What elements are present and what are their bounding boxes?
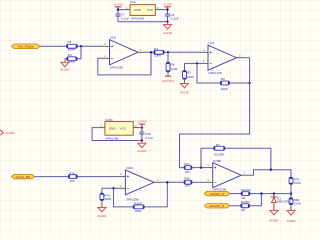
- pin 1 stub U1A output: [237, 57, 245, 59]
- port ADCKP_N: [204, 204, 230, 208]
- svg-text:sin(X)_BA: sin(X)_BA: [16, 175, 31, 179]
- op-amp U29A: [125, 170, 154, 195]
- svg-text:U1B: U1B: [110, 36, 116, 40]
- svg-text:U1C: U1C: [130, 0, 137, 4]
- svg-text:AGND: AGND: [180, 91, 190, 95]
- svg-text:AGND: AGND: [137, 149, 147, 153]
- ground AGND (D1): [269, 210, 279, 222]
- svg-text:0.1uF: 0.1uF: [145, 136, 153, 140]
- wire R2 to U1A pin3: [164, 51, 200, 53]
- resistor R42: [184, 177, 192, 188]
- pin 2 stub U1B: [102, 57, 110, 59]
- svg-text:KEY3V3: KEY3V3: [162, 79, 174, 83]
- resistor R5: [183, 71, 196, 80]
- pin 4 stub (U1C GND): [125, 9, 131, 11]
- svg-text:100K: 100K: [171, 67, 179, 71]
- capacitor C56: [139, 128, 153, 141]
- wire R3 to ground: [65, 58, 67, 60]
- resistor R2: [154, 47, 165, 58]
- op-amp U1A: [208, 45, 237, 70]
- resistor R6: [220, 77, 229, 91]
- svg-text:100K: 100K: [154, 54, 162, 58]
- wire U1A output down and across to R41: [180, 58, 250, 168]
- svg-text:R1: R1: [68, 40, 72, 44]
- svg-text:100K: 100K: [134, 209, 142, 213]
- pin 8 stub (U29C VCC): [133, 127, 139, 129]
- resistor R74: [68, 171, 77, 183]
- svg-text:100K: 100K: [294, 201, 302, 205]
- ground AGND (U29C): [137, 141, 147, 153]
- wire U1C VCC pin to node: [161, 9, 168, 11]
- resistor R4: [166, 62, 179, 72]
- capacitor C8: [165, 10, 179, 22]
- pin 6 stub U29B: [205, 181, 213, 183]
- op-amp power part U1C body: [130, 5, 155, 16]
- svg-text:+2.5VA: +2.5VA: [113, 2, 124, 6]
- svg-text:Key_Phase: Key_Phase: [18, 45, 34, 49]
- ground AGND (R3): [60, 59, 70, 72]
- svg-text:U29B: U29B: [213, 159, 221, 163]
- junction feedback tap: [196, 62, 198, 64]
- wire U29A pin2 to R76: [102, 188, 118, 193]
- resistor R2001: [241, 200, 251, 212]
- ground AGND (top section): [163, 22, 173, 35]
- resistor R76: [100, 193, 112, 201]
- op-amp U1B: [110, 40, 139, 65]
- port ADCKP_P: [204, 191, 230, 195]
- junction U1B output: [150, 51, 152, 53]
- wire R41 to U29B pin5: [192, 167, 205, 169]
- svg-text:0.1uF: 0.1uF: [171, 16, 179, 20]
- svg-text:100K: 100K: [68, 47, 76, 51]
- ground AGND (R76): [97, 207, 107, 218]
- svg-text:AGND: AGND: [269, 218, 279, 222]
- wire C7 bottom to C8 bottom: [118, 21, 168, 23]
- junction U29A output: [166, 181, 168, 183]
- pin 2 stub U1A: [201, 62, 209, 64]
- wire R4 to power bar: [167, 72, 169, 76]
- svg-text:100K: 100K: [104, 197, 112, 201]
- svg-text:R2000: R2000: [241, 188, 250, 192]
- svg-text:100K: 100K: [221, 87, 229, 91]
- svg-text:AGND: AGND: [287, 219, 297, 223]
- wire port to R1 and U1B: [40, 45, 102, 47]
- junction D1 tap: [273, 192, 275, 194]
- wire R76 to ground: [101, 201, 103, 208]
- resistor R79: [289, 177, 302, 185]
- junction feedback tap (U29A): [112, 187, 114, 189]
- resistor R100: [133, 202, 144, 214]
- svg-text:GND: GND: [109, 127, 117, 131]
- svg-text:R2: R2: [154, 47, 158, 51]
- svg-text:OPA2198: OPA2198: [110, 65, 123, 69]
- junction R7/output: [270, 169, 272, 171]
- pin 8 stub (U1C VCC): [155, 9, 161, 11]
- resistor R2000: [241, 188, 251, 200]
- svg-text:100K: 100K: [187, 75, 195, 79]
- wire port to R2000: [230, 193, 241, 195]
- svg-text:U1A: U1A: [208, 41, 215, 45]
- wire R100 to output column: [144, 182, 167, 207]
- ground AGND (R5): [180, 83, 190, 94]
- svg-text:+2.5VA: +2.5VA: [162, 2, 173, 6]
- junction C56 bottom: [141, 139, 143, 141]
- svg-text:100K: 100K: [68, 60, 76, 64]
- wire R80 to ground: [290, 205, 292, 211]
- svg-text:100K: 100K: [294, 181, 302, 185]
- wire U29C GND to ground node: [92, 128, 142, 141]
- pin 1 stub U29A output: [154, 181, 161, 183]
- wire down to R4: [167, 52, 169, 62]
- svg-text:OPA2198: OPA2198: [131, 17, 144, 21]
- wire U1B output to R2: [145, 51, 154, 53]
- capacitor C7: [116, 10, 130, 22]
- junction node left power: [117, 8, 119, 10]
- resistor R41: [184, 162, 192, 174]
- junction divider node: [290, 192, 292, 194]
- power +2.5VA (U29C): [137, 120, 148, 128]
- resistor R7: [214, 143, 225, 156]
- pin 7 stub U29B output: [241, 174, 249, 176]
- wire U1A feedback: [197, 63, 220, 83]
- svg-text:R7: R7: [216, 143, 220, 147]
- wire U1A pin2 to R5: [185, 62, 201, 64]
- wire U29C VCC to power node: [140, 127, 142, 129]
- wire R2001 up to node: [250, 194, 262, 206]
- wire junction down to R3: [77, 46, 81, 59]
- svg-text:U29A: U29A: [126, 166, 135, 170]
- svg-text:R100: R100: [134, 202, 142, 206]
- wire U29A feedback: [114, 188, 134, 207]
- wire up to R7: [201, 148, 214, 167]
- svg-text:MM1Z5V1: MM1Z5V1: [277, 200, 292, 204]
- junction node right power: [166, 8, 168, 10]
- svg-text:10K: 10K: [184, 183, 190, 187]
- ground AGND (R80): [287, 211, 297, 223]
- pin 1 stub U1B output: [138, 51, 145, 53]
- svg-text:AGND: AGND: [97, 214, 107, 218]
- pin 2 stub U29A: [117, 187, 125, 189]
- svg-text:R4: R4: [171, 63, 175, 67]
- svg-text:AGND: AGND: [163, 31, 173, 35]
- port sin(X)_BA: [12, 174, 35, 178]
- svg-text:R3: R3: [68, 53, 72, 57]
- svg-text:VCC: VCC: [147, 8, 154, 12]
- pin 3 stub U29A: [117, 176, 125, 178]
- op-amp power part U29C body: [105, 122, 133, 136]
- svg-text:0.1uF: 0.1uF: [121, 17, 129, 21]
- resistor R3: [67, 53, 78, 64]
- wire U29B output to R79 column: [249, 170, 291, 178]
- svg-text:+2.5VA: +2.5VA: [137, 120, 148, 124]
- junction R2001 riser: [260, 192, 262, 194]
- svg-text:R6: R6: [221, 77, 225, 81]
- svg-text:OPA2198: OPA2198: [105, 137, 118, 141]
- wire port to R2001: [230, 205, 241, 207]
- pin 3 stub U1B: [102, 45, 110, 47]
- svg-text:GND: GND: [134, 8, 142, 12]
- svg-text:OPA2198: OPA2198: [208, 71, 221, 75]
- junction R7 tap: [200, 166, 202, 168]
- svg-text:AGND: AGND: [60, 68, 70, 72]
- svg-text:R74: R74: [69, 171, 75, 175]
- wire R79 to node: [290, 184, 292, 197]
- power KEY3V3: [162, 76, 174, 83]
- wire R5 to ground: [184, 79, 186, 83]
- svg-text:VCC: VCC: [120, 127, 127, 131]
- wire divider node across: [250, 193, 291, 195]
- wire R7 to output junction: [225, 148, 271, 169]
- svg-text:NC(0R): NC(0R): [214, 152, 224, 156]
- junction R1/R3: [80, 45, 82, 47]
- power +2.5VA (left): [113, 2, 124, 9]
- wire R6 to output column: [230, 82, 250, 84]
- resistor R80: [289, 198, 302, 206]
- pin 4 stub (U29C GND): [99, 127, 105, 129]
- svg-text:R2001: R2001: [241, 200, 250, 204]
- wire port to R74 and U29A: [35, 176, 118, 178]
- svg-text:R42: R42: [184, 177, 190, 181]
- pin 3 stub U1A: [201, 51, 209, 53]
- svg-text:AGND: AGND: [5, 131, 15, 135]
- port Key_Phase: [12, 44, 41, 49]
- op-amp U29B: [213, 163, 242, 188]
- svg-text:ADCKP_P: ADCKP_P: [210, 192, 224, 196]
- wire U1C GND pin to node: [118, 9, 125, 11]
- wire down to R5: [184, 63, 186, 70]
- wire R42 to U29B pin6: [192, 181, 205, 183]
- power +2.5VA (right): [162, 2, 173, 9]
- svg-text:R41: R41: [184, 162, 190, 166]
- pin 5 stub U29B: [205, 167, 213, 169]
- ground AGND (left edge, clipped): [0, 130, 15, 135]
- junction cap bottoms: [166, 21, 168, 23]
- resistor R1: [66, 40, 77, 51]
- diode D1 (zener): [271, 194, 291, 211]
- wire U1B feedback loop: [98, 52, 151, 75]
- junction U29C VCC: [141, 126, 143, 128]
- junction output/feedback: [248, 82, 250, 84]
- svg-text:10K: 10K: [184, 170, 190, 174]
- junction R4 tap: [167, 51, 169, 53]
- svg-text:10K: 10K: [69, 179, 75, 183]
- svg-text:ADCKP_N: ADCKP_N: [209, 204, 224, 208]
- wire U29A output to R42: [161, 181, 184, 183]
